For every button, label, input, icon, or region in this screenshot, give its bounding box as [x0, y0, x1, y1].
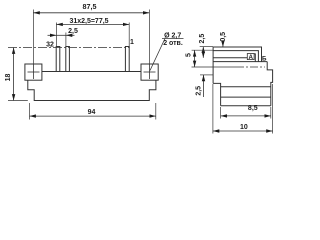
- dim 87.5 line: [33, 12, 149, 14]
- dim 94 line: [30, 115, 156, 117]
- dim 10 line: [213, 130, 273, 132]
- dim 8.5 left extension: [220, 107, 222, 119]
- svg-text:2,5: 2,5: [199, 34, 206, 44]
- svg-text:0,5: 0,5: [220, 32, 227, 42]
- svg-text:94: 94: [88, 109, 96, 116]
- svg-text:A: A: [248, 54, 253, 61]
- svg-text:32: 32: [46, 41, 54, 48]
- svg-text:Ø 2,7: Ø 2,7: [164, 33, 181, 40]
- svg-text:5: 5: [186, 53, 193, 57]
- dim 18 line: [13, 48, 15, 101]
- left mounting square: [25, 64, 42, 80]
- dim 2.5 lower extension: [200, 74, 213, 76]
- side left ledge: [213, 83, 221, 105]
- svg-text:18: 18: [5, 74, 12, 82]
- svg-text:87,5: 87,5: [83, 2, 97, 11]
- svg-text:2 отв.: 2 отв.: [163, 40, 183, 47]
- body outline lower: [28, 80, 156, 100]
- dim 8.5 right extension: [270, 107, 272, 119]
- dim 94 left extension: [29, 103, 31, 120]
- side centerline dashed part: [236, 66, 265, 68]
- side right profile: [267, 62, 272, 106]
- block internal line 2: [221, 96, 271, 98]
- extension pin1 right edge: [128, 23, 130, 47]
- right mounting square: [141, 64, 158, 80]
- dim 0.5 arrow: [222, 42, 224, 47]
- svg-text:2,5: 2,5: [196, 86, 203, 96]
- extension pin32 left edge: [55, 23, 57, 47]
- side body top: [213, 61, 267, 63]
- left hole cross vertical: [32, 64, 34, 79]
- svg-text:2,5: 2,5: [68, 28, 78, 35]
- dim 2.5 upper extension: [200, 46, 213, 48]
- dim 18 bottom extension: [8, 100, 28, 102]
- dim 5 extension top: [192, 49, 214, 51]
- dim 5 line: [194, 50, 196, 67]
- dim 10 right extension: [272, 84, 274, 134]
- body top edge: [42, 71, 141, 73]
- dim 2.5 upper line: [202, 47, 204, 58]
- leader line to hole note: [150, 39, 165, 71]
- svg-text:10: 10: [240, 124, 248, 131]
- right hole cross vertical: [148, 64, 150, 79]
- svg-text:1: 1: [130, 39, 134, 46]
- dim 87.5 extension left: [32, 10, 34, 65]
- dim 2.5 outside arrow right: [66, 34, 75, 36]
- pin 31: [66, 47, 70, 72]
- svg-text:31x2,5=77,5: 31x2,5=77,5: [69, 18, 108, 25]
- pin 32: [56, 47, 60, 72]
- plate B top: [213, 47, 261, 62]
- centerline main view: [8, 47, 130, 49]
- dim 2.5 pitch line between extensions: [56, 34, 66, 36]
- dim 10 left extension: [212, 84, 214, 134]
- leader shelf: [162, 38, 184, 40]
- dim 94 right extension: [155, 103, 157, 120]
- dim 8.5 line: [221, 115, 271, 117]
- left hole cross horizontal: [28, 71, 40, 73]
- plates left edge: [212, 47, 214, 83]
- block bottom: [221, 105, 271, 107]
- dim 2.5 lower line: [203, 75, 205, 97]
- plate B bottom: [213, 51, 258, 62]
- dim 2.5 outside arrow left: [48, 34, 57, 36]
- side centerline solid part: [192, 66, 237, 68]
- plate bend inner stub: [249, 54, 256, 62]
- label A box: [247, 54, 254, 60]
- dim 31x2.5=77.5 line: [56, 23, 129, 25]
- svg-text:8,5: 8,5: [248, 105, 258, 112]
- dim 87.5 extension right: [148, 10, 150, 65]
- svg-text:Б: Б: [262, 56, 267, 63]
- right hole cross horizontal: [144, 71, 156, 73]
- pin 1: [125, 47, 129, 72]
- block internal line 1: [221, 86, 271, 88]
- extension pin31 left edge: [65, 33, 67, 47]
- plate A top: [213, 57, 247, 59]
